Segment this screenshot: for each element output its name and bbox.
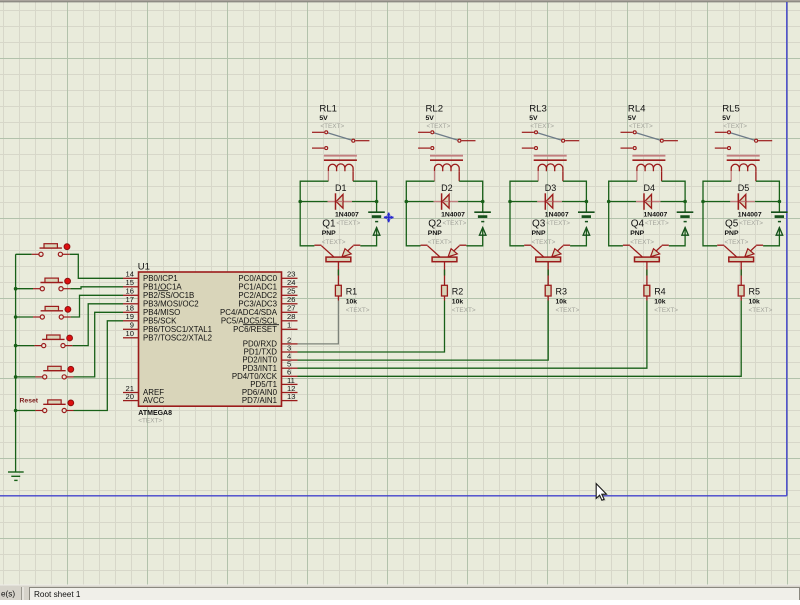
relay RL5 label xyxy=(722,103,747,130)
relay RL4 label xyxy=(628,103,653,130)
svg-text:5V: 5V xyxy=(319,115,328,122)
svg-text:RL4: RL4 xyxy=(628,103,646,114)
junction bus SW6 xyxy=(14,409,18,413)
sheet border horizontal xyxy=(0,495,787,497)
button SW1 state dot xyxy=(64,244,70,250)
status bar xyxy=(0,585,800,601)
svg-text:<TEXT>: <TEXT> xyxy=(532,239,556,246)
junction bus SW2 xyxy=(14,287,18,291)
junction stage 5 left xyxy=(701,200,705,204)
svg-text:<TEXT>: <TEXT> xyxy=(546,220,570,227)
battery stage 2 xyxy=(474,212,491,221)
battery stage 3 xyxy=(578,212,595,221)
junction stage 4 left xyxy=(607,200,611,204)
svg-text:PNP: PNP xyxy=(725,230,739,237)
relay RL1 coil xyxy=(324,156,357,182)
wire R1 to MCU pin xyxy=(298,301,339,344)
diode D5 xyxy=(730,193,755,210)
transistor Q3 xyxy=(524,245,570,285)
power arrow stage 2 xyxy=(479,228,486,236)
button SW6 state dot xyxy=(68,400,74,406)
svg-text:<TEXT>: <TEXT> xyxy=(645,220,669,227)
relay RL3 contacts xyxy=(522,131,579,150)
toolbar edge top xyxy=(0,0,800,1)
junction bus SW5 xyxy=(14,375,18,379)
svg-text:10: 10 xyxy=(126,329,134,338)
svg-text:PC6/RESET: PC6/RESET xyxy=(233,325,277,334)
button SW5 xyxy=(35,366,73,379)
wire SW2 to MCU xyxy=(70,287,123,289)
button SW2 state dot xyxy=(65,278,71,284)
svg-text:5V: 5V xyxy=(426,115,435,122)
wire SW4 to MCU xyxy=(72,304,123,346)
svg-text:PNP: PNP xyxy=(322,230,336,237)
relay RL4 contacts xyxy=(621,131,678,150)
svg-text:Q1: Q1 xyxy=(322,219,336,230)
relay RL2 label xyxy=(426,103,451,130)
wire loop stage 2 xyxy=(406,181,482,246)
power arrow stage 1 xyxy=(373,228,380,236)
svg-text:13: 13 xyxy=(287,392,295,401)
MCU U1 body xyxy=(139,272,282,406)
junction stage 5 right xyxy=(778,200,782,204)
pin 21 AREF xyxy=(123,384,164,397)
junction stage 3 right xyxy=(585,200,589,204)
relay RL1 contacts xyxy=(312,131,369,150)
svg-text:D3: D3 xyxy=(545,183,557,193)
svg-text:<TEXT>: <TEXT> xyxy=(320,123,344,130)
pin 10 PB7/TOSC2/XTAL2 xyxy=(123,329,212,342)
resistor R2 xyxy=(442,285,448,300)
svg-text:<TEXT>: <TEXT> xyxy=(443,220,467,227)
svg-text:RL2: RL2 xyxy=(426,103,444,114)
pin 12 PD6/AIN0 xyxy=(242,384,298,397)
diode D4 xyxy=(636,193,661,210)
svg-text:Q3: Q3 xyxy=(532,219,546,230)
diode D3 xyxy=(537,193,562,210)
button SW6 xyxy=(35,400,73,413)
svg-text:D4: D4 xyxy=(644,183,656,193)
wire loop stage 4 xyxy=(609,181,685,246)
relay RL1 label xyxy=(319,103,344,130)
relay RL3 coil xyxy=(534,156,567,182)
svg-text:1N4007: 1N4007 xyxy=(644,212,668,219)
button SW4 wire left xyxy=(16,345,35,347)
wire ground bus vertical xyxy=(15,254,17,471)
battery stage 4 xyxy=(677,212,694,221)
pin 26 PC3/ADC3 xyxy=(238,295,297,308)
label Q2 xyxy=(428,219,467,246)
battery stage 1 xyxy=(368,212,385,221)
svg-text:D1: D1 xyxy=(335,183,347,193)
pin 19 PB5/SCK xyxy=(123,312,177,325)
wire SW5 to MCU xyxy=(74,312,124,377)
svg-text:RL1: RL1 xyxy=(319,103,337,114)
wire R2 to MCU pin xyxy=(298,301,445,353)
svg-text:<TEXT>: <TEXT> xyxy=(629,123,653,130)
svg-text:ATMEGA8: ATMEGA8 xyxy=(138,410,172,417)
button SW4 xyxy=(34,335,72,348)
pin 11 PD5/T1 xyxy=(250,376,297,389)
svg-text:R5: R5 xyxy=(749,286,761,296)
svg-text:<TEXT>: <TEXT> xyxy=(654,307,678,314)
pin 14 PB0/ICP1 xyxy=(123,270,178,283)
pin 13 PD7/AIN1 xyxy=(242,392,298,405)
wire R4 to MCU pin xyxy=(298,301,647,369)
junction bus SW3 xyxy=(14,315,18,319)
svg-text:R4: R4 xyxy=(654,286,666,296)
button SW1 wire left xyxy=(16,253,32,255)
label R2 xyxy=(452,286,476,314)
svg-text:R2: R2 xyxy=(452,286,464,296)
power arrow stage 5 xyxy=(776,228,783,236)
pin 15 PB1/OC1A xyxy=(123,278,182,291)
resistor R3 xyxy=(545,285,551,300)
junction stage 2 right xyxy=(481,200,485,204)
wire loop stage 1 xyxy=(300,181,376,246)
battery stage 5 xyxy=(771,212,788,221)
svg-text:Q5: Q5 xyxy=(725,219,739,230)
resistor R5 xyxy=(738,285,744,300)
svg-text:10k: 10k xyxy=(346,298,358,305)
svg-text:10k: 10k xyxy=(749,298,761,305)
pin 27 PC4/ADC4/SDA xyxy=(220,304,298,317)
svg-text:PNP: PNP xyxy=(428,230,442,237)
svg-text:R3: R3 xyxy=(556,286,568,296)
junction stage 3 left xyxy=(508,200,512,204)
svg-text:10k: 10k xyxy=(654,298,666,305)
svg-text:Q2: Q2 xyxy=(428,219,442,230)
sheet border vertical xyxy=(786,2,788,496)
pin 25 PC2/ADC2 xyxy=(238,287,297,300)
svg-text:<TEXT>: <TEXT> xyxy=(556,307,580,314)
relay RL5 coil xyxy=(727,156,760,182)
label R3 xyxy=(556,286,580,314)
svg-text:1N4007: 1N4007 xyxy=(335,212,359,219)
svg-text:10k: 10k xyxy=(452,298,464,305)
svg-text:<TEXT>: <TEXT> xyxy=(346,307,370,314)
transistor Q2 xyxy=(421,245,467,285)
button SW6 wire left xyxy=(16,410,36,412)
resistor R4 xyxy=(644,285,650,300)
relay RL4 coil xyxy=(632,156,665,182)
svg-text:<TEXT>: <TEXT> xyxy=(322,239,346,246)
label Q3 xyxy=(532,219,571,246)
svg-text:<TEXT>: <TEXT> xyxy=(630,239,654,246)
button SW2 wire left xyxy=(16,288,33,290)
button SW2 xyxy=(33,278,70,291)
button SW3 state dot xyxy=(65,307,71,313)
svg-text:1: 1 xyxy=(287,321,291,330)
junction bus SW4 xyxy=(14,344,18,348)
transistor Q4 xyxy=(623,245,669,285)
svg-text:<TEXT>: <TEXT> xyxy=(739,220,763,227)
svg-text:1N4007: 1N4007 xyxy=(441,212,465,219)
wire R3 to MCU pin xyxy=(298,301,549,361)
svg-text:R1: R1 xyxy=(346,286,358,296)
relay RL3 label xyxy=(529,103,554,130)
mouse cursor xyxy=(596,484,608,502)
wire SW3 to MCU xyxy=(71,295,123,317)
pin 4 PD2/INT0 xyxy=(242,352,297,365)
svg-text:<TEXT>: <TEXT> xyxy=(452,307,476,314)
svg-text:1N4007: 1N4007 xyxy=(545,212,569,219)
button SW3 wire left xyxy=(16,316,33,318)
label R1 xyxy=(346,286,370,314)
svg-text:5V: 5V xyxy=(529,115,538,122)
wire loop stage 5 xyxy=(703,181,779,246)
label Q4 xyxy=(630,219,669,246)
svg-text:D2: D2 xyxy=(441,183,453,193)
svg-text:D5: D5 xyxy=(738,183,750,193)
transistor Q1 xyxy=(314,245,360,285)
label R4 xyxy=(654,286,678,314)
diode D1 xyxy=(328,193,353,210)
svg-text:Q4: Q4 xyxy=(631,219,645,230)
origin marker xyxy=(384,212,394,222)
button SW3 xyxy=(33,306,71,319)
power arrow stage 4 xyxy=(682,228,689,236)
svg-text:<TEXT>: <TEXT> xyxy=(427,123,451,130)
junction stage 4 right xyxy=(683,200,687,204)
junction stage 1 left xyxy=(298,200,302,204)
svg-text:PNP: PNP xyxy=(630,230,644,237)
svg-text:AVCC: AVCC xyxy=(143,396,165,405)
svg-text:5V: 5V xyxy=(722,115,731,122)
pin 5 PD3/INT1 xyxy=(242,360,297,373)
relay RL2 contacts xyxy=(418,131,475,150)
pin 23 PC0/ADC0 xyxy=(238,270,297,283)
svg-text:20: 20 xyxy=(126,392,134,401)
junction stage 2 left xyxy=(405,200,409,204)
button SW4 state dot xyxy=(67,335,73,341)
pin 3 PD1/TXD xyxy=(244,343,298,356)
pin 1 PC6/RESET xyxy=(233,321,297,334)
svg-text:<TEXT>: <TEXT> xyxy=(336,220,360,227)
svg-text:1N4007: 1N4007 xyxy=(738,212,762,219)
svg-text:5V: 5V xyxy=(628,115,637,122)
pin 28 PC5/ADC5/SCL xyxy=(221,312,298,325)
wire loop stage 3 xyxy=(510,181,586,246)
svg-text:10k: 10k xyxy=(556,298,568,305)
pin 6 PD4/T0/XCK xyxy=(232,368,298,381)
pin 24 PC1/ADC1 xyxy=(238,278,297,291)
svg-text:Reset: Reset xyxy=(20,398,39,405)
label R5 xyxy=(749,286,773,314)
ground xyxy=(8,472,24,480)
pin 17 PB3/MOSI/OC2 xyxy=(123,295,199,308)
label Q5 xyxy=(725,219,764,246)
wire SW6 to MCU xyxy=(74,321,124,411)
relay RL2 coil xyxy=(430,156,463,182)
svg-text:<TEXT>: <TEXT> xyxy=(428,239,452,246)
pin 2 PD0/RXD xyxy=(243,335,298,348)
svg-text:PNP: PNP xyxy=(532,230,546,237)
svg-text:PD7/AIN1: PD7/AIN1 xyxy=(242,396,277,405)
svg-text:RL3: RL3 xyxy=(529,103,547,114)
label Q1 xyxy=(322,219,361,246)
svg-text:e(s): e(s) xyxy=(1,590,15,599)
svg-text:<TEXT>: <TEXT> xyxy=(138,418,162,425)
power arrow stage 3 xyxy=(583,228,590,236)
svg-text:<TEXT>: <TEXT> xyxy=(749,307,773,314)
wire R5 to MCU pin xyxy=(298,301,742,377)
resistor R1 xyxy=(335,285,341,300)
diode D2 xyxy=(434,193,459,210)
pin 9 PB6/TOSC1/XTAL1 xyxy=(123,321,212,334)
svg-text:<TEXT>: <TEXT> xyxy=(723,123,747,130)
button SW5 state dot xyxy=(68,366,74,372)
button SW5 wire left xyxy=(16,376,36,378)
svg-text:<TEXT>: <TEXT> xyxy=(725,239,749,246)
svg-text:<TEXT>: <TEXT> xyxy=(530,123,554,130)
relay RL5 contacts xyxy=(715,131,772,150)
svg-text:U1: U1 xyxy=(138,262,150,273)
wire SW1 to MCU xyxy=(70,254,123,278)
svg-text:Root sheet 1: Root sheet 1 xyxy=(34,590,81,599)
transistor Q5 xyxy=(717,245,763,285)
pin 18 PB4/MISO xyxy=(123,304,180,317)
svg-text:PB7/TOSC2/XTAL2: PB7/TOSC2/XTAL2 xyxy=(143,333,212,342)
junction stage 1 right xyxy=(375,200,379,204)
pin 20 AVCC xyxy=(123,392,165,405)
pin 16 PB2/SS/OC1B xyxy=(123,287,194,300)
svg-text:RL5: RL5 xyxy=(722,103,740,114)
button SW1 xyxy=(32,244,70,257)
